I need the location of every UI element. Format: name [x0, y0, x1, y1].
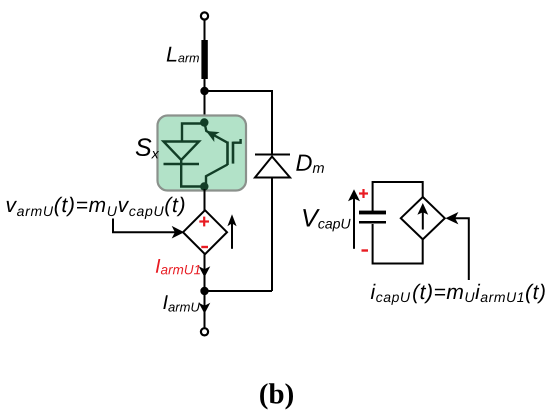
minus sign: [201, 246, 208, 248]
top terminal: [201, 12, 208, 19]
wire Dm return: [205, 290, 273, 292]
label IarmU1: [156, 259, 200, 274]
label IarmU: [163, 295, 200, 311]
capacitor top plate: [359, 211, 386, 215]
control pointer wire: [452, 218, 469, 280]
bottom terminal: [201, 328, 208, 335]
VcapU voltage arrow: [353, 195, 355, 249]
controlled voltage source diamond: [183, 210, 227, 254]
node junction bottom: [200, 287, 208, 295]
wire source to node: [204, 254, 206, 291]
cell bottom node dot: [200, 182, 208, 190]
wire terminal to inductor: [204, 20, 206, 41]
label Dm: [296, 155, 324, 173]
antiparallel diode of Sx: [164, 124, 205, 187]
wire cell to source: [204, 189, 206, 211]
IarmU1 arrowhead: [199, 266, 211, 277]
minus sign VcapU: [362, 249, 369, 251]
pointer arrowhead: [172, 226, 185, 239]
diode Dm: [255, 155, 290, 292]
pointer wire from equation: [113, 219, 177, 233]
wire inductor to cell: [204, 79, 206, 118]
controlled current source diamond: [401, 197, 445, 239]
inductor Larm: [201, 40, 207, 79]
plus sign VcapU: [359, 189, 368, 198]
cell top node dot: [200, 118, 208, 126]
label Larm: [167, 47, 199, 63]
IarmU arrowhead: [199, 303, 211, 314]
control pointer arrowhead: [445, 212, 458, 224]
node junction top: [200, 87, 208, 95]
label VcapU: [303, 209, 350, 231]
capacitor loop wires: [373, 182, 423, 264]
label Sx: [136, 138, 159, 158]
capacitor bottom plate: [359, 221, 386, 224]
label varmU equation: [7, 197, 185, 219]
plus sign: [199, 217, 209, 227]
IGBT of Sx: [205, 124, 241, 187]
label icapU equation: [371, 284, 545, 305]
caption (b): [260, 383, 293, 409]
wire node to bottom terminal: [204, 291, 206, 328]
switch cell Sx box: [158, 116, 247, 191]
current source arrow: [422, 210, 424, 230]
wire to Dm branch: [205, 91, 273, 155]
IGBT collector arrowhead: [206, 131, 220, 142]
current direction arrow: [231, 220, 233, 249]
